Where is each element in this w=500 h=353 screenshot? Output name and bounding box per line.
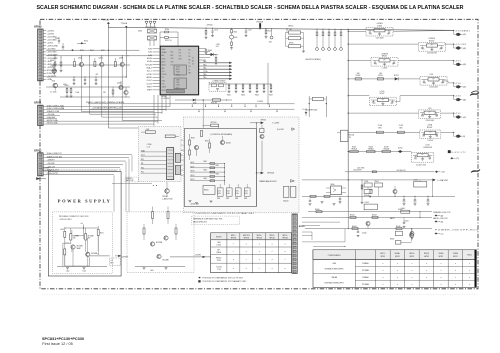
svg-text:C524 47U/16V: C524 47U/16V bbox=[427, 53, 437, 55]
svg-text:x: x bbox=[440, 284, 441, 286]
svg-text:x: x bbox=[426, 263, 427, 265]
svg-text:100N: 100N bbox=[227, 193, 230, 195]
svg-text:(CONTROL-KEYBOARD): (CONTROL-KEYBOARD) bbox=[211, 133, 233, 136]
svg-text:+ 1 V 8: + 1 V 8 bbox=[455, 83, 461, 85]
svg-text:D5040: D5040 bbox=[398, 209, 403, 211]
ground symbols control box bbox=[189, 201, 213, 205]
cluster RC standby bbox=[361, 180, 378, 210]
control box key row wires bbox=[190, 162, 225, 185]
capacitor C540 with gnd bbox=[339, 196, 342, 203]
terminal BACKLIGHT-ON bbox=[433, 217, 447, 223]
svg-text:C5042: C5042 bbox=[362, 233, 367, 235]
resistor pair RP511 bbox=[286, 38, 306, 52]
svg-text:TT500A: TT500A bbox=[121, 22, 128, 25]
svg-text:BP519: BP519 bbox=[381, 256, 386, 258]
svg-text:BV5140: BV5140 bbox=[349, 134, 355, 136]
footer issue date bbox=[42, 342, 73, 346]
IC1 right output arrows LVDS lines bbox=[199, 60, 233, 80]
transistor Q504 bbox=[117, 81, 123, 90]
svg-text:R5103: R5103 bbox=[356, 75, 361, 77]
svg-text:V502: V502 bbox=[52, 80, 56, 82]
svg-text:≠: ≠ bbox=[469, 269, 470, 272]
svg-text:+5V-GND: +5V-GND bbox=[47, 163, 55, 165]
svg-text:TNVL: TNVL bbox=[176, 82, 180, 84]
terminal BP500 lower bbox=[256, 172, 275, 175]
svg-text:BC558B: BC558B bbox=[156, 242, 162, 244]
svg-text:x: x bbox=[469, 277, 470, 279]
svg-text:C504: C504 bbox=[227, 190, 230, 192]
page border dash-dot frame bbox=[40, 19, 478, 289]
svg-text:SDA/SCL+(BACKLIGHT)+DIMMING-(S: SDA/SCL+(BACKLIGHT)+DIMMING-(SCALER) bbox=[86, 101, 125, 104]
svg-text:x: x bbox=[246, 251, 247, 253]
svg-text:x: x bbox=[455, 284, 456, 286]
svg-text:BP500: BP500 bbox=[261, 120, 266, 122]
node D+5V diamond bbox=[303, 109, 308, 116]
capacitor C510 bbox=[205, 49, 208, 55]
resistor R5149 row8 bbox=[382, 146, 390, 152]
svg-text:4R7: 4R7 bbox=[428, 112, 431, 114]
svg-text:+ 1 2 V / I N V: + 1 2 V / I N V bbox=[455, 44, 467, 46]
svg-text:100N: 100N bbox=[245, 193, 248, 195]
svg-text:TLR: TLR bbox=[179, 53, 182, 55]
svg-text:BP519: BP519 bbox=[410, 256, 415, 258]
svg-text:BP203: BP203 bbox=[299, 226, 305, 228]
note diamond position of components bbox=[198, 277, 244, 280]
svg-text:x: x bbox=[285, 244, 286, 246]
net label L7500 bbox=[147, 144, 152, 148]
transistor below micro box bbox=[153, 182, 169, 197]
svg-text:BP202: BP202 bbox=[34, 149, 42, 152]
svg-text:x: x bbox=[440, 277, 441, 279]
svg-text:BP519: BP519 bbox=[289, 43, 294, 45]
svg-text:R5048: R5048 bbox=[390, 239, 394, 241]
svg-text:BP518: BP518 bbox=[395, 256, 400, 258]
resistor network below IC1 bbox=[227, 84, 273, 97]
svg-text:SW4: SW4 bbox=[244, 198, 247, 200]
svg-text:R462: R462 bbox=[216, 165, 220, 167]
svg-text:x: x bbox=[272, 268, 273, 270]
net label LVDS bbox=[258, 63, 269, 105]
wire lower rail B bbox=[60, 96, 130, 98]
svg-text:P O W E R - O N / O F F - R C: P O W E R - O N / O F F - R C 5 bbox=[435, 229, 478, 231]
wire video input verticals bbox=[154, 95, 170, 127]
svg-text:+5VSW/T: +5VSW/T bbox=[43, 167, 50, 169]
resistor R521 bbox=[160, 37, 178, 43]
svg-text:0LRS1: 0LRS1 bbox=[162, 87, 167, 89]
svg-text:KEY1: KEY1 bbox=[191, 162, 195, 164]
svg-text:1SX: 1SX bbox=[171, 65, 174, 67]
transistor Q523 bbox=[86, 252, 97, 256]
svg-text:R512 4K7: R512 4K7 bbox=[211, 102, 217, 104]
svg-text:4R7: 4R7 bbox=[378, 29, 381, 31]
svg-text:BC558B: BC558B bbox=[77, 246, 83, 248]
svg-text:C-5/16V C5151: C-5/16V C5151 bbox=[416, 164, 427, 166]
svg-text:IR500: IR500 bbox=[204, 190, 209, 192]
svg-text:7B: 7B bbox=[349, 137, 351, 139]
left outside pin labels control box bbox=[181, 140, 184, 177]
svg-text:BP200: BP200 bbox=[34, 26, 42, 29]
svg-text:POW-ON-TXT: POW-ON-TXT bbox=[47, 173, 59, 175]
svg-text:C+5: C+5 bbox=[373, 103, 376, 105]
svg-text:R515: R515 bbox=[101, 50, 105, 52]
left column control box components bbox=[189, 134, 211, 160]
node BT500 top feed bbox=[103, 19, 110, 128]
svg-text:R5148: R5148 bbox=[369, 146, 373, 148]
svg-text:R547: R547 bbox=[269, 94, 273, 96]
svg-text:RS: RS bbox=[189, 59, 191, 61]
voltage regulator cluster +3V3 branch row3 bbox=[348, 53, 454, 69]
svg-text:C5143: C5143 bbox=[378, 125, 383, 127]
svg-text:+5VS00: +5VS00 bbox=[206, 25, 212, 27]
svg-text:100N: 100N bbox=[218, 193, 221, 195]
svg-text:SRN1: SRN1 bbox=[176, 74, 180, 76]
svg-text:L202: L202 bbox=[66, 270, 70, 272]
transistor Q510 in control box bbox=[201, 131, 231, 145]
break squiggle lower right border bbox=[471, 170, 480, 173]
terminal +12V-INV bbox=[453, 44, 467, 50]
svg-text:BYD17: BYD17 bbox=[394, 75, 399, 77]
svg-text:1VS: 1VS bbox=[162, 84, 165, 86]
svg-text:KEY4: KEY4 bbox=[191, 175, 195, 177]
op-amp U1 main scaler IC IV500 bbox=[160, 46, 198, 95]
svg-text:SCL: SCL bbox=[181, 155, 184, 157]
wire top power bus bbox=[108, 25, 453, 31]
voltage regulator cluster +12V branch row2 bbox=[348, 38, 454, 54]
svg-text:16V: 16V bbox=[436, 116, 438, 118]
svg-text:Q502: Q502 bbox=[99, 58, 103, 60]
svg-text:+12V/+5V ONLY: +12V/+5V ONLY bbox=[59, 219, 73, 221]
terminal +5VD bbox=[453, 95, 466, 101]
svg-text:D + 5 V 2 - C T C: D + 5 V 2 - C T C bbox=[452, 152, 467, 154]
module BP510 panel block bbox=[283, 186, 296, 202]
svg-text:V501: V501 bbox=[51, 66, 55, 68]
svg-text:1N: 1N bbox=[192, 64, 194, 66]
svg-text:R522: R522 bbox=[234, 31, 238, 33]
svg-text:C5109 100N: C5109 100N bbox=[425, 120, 433, 122]
wire +5V rail bbox=[46, 55, 152, 56]
svg-text:BC547: BC547 bbox=[380, 93, 385, 95]
transistor Q500B beside BP200 bbox=[50, 80, 57, 93]
svg-text:LD7805: LD7805 bbox=[377, 26, 382, 28]
transistor Q502 bbox=[94, 56, 158, 117]
resistor R575 bbox=[143, 224, 145, 240]
svg-text:BP519: BP519 bbox=[439, 256, 444, 258]
svg-text:MOUNT: MOUNT bbox=[216, 236, 222, 238]
diode D5150 row8 bbox=[398, 148, 403, 153]
svg-text:VX: VX bbox=[189, 50, 191, 52]
svg-text:NSL: NSL bbox=[171, 52, 174, 54]
svg-text:SW3: SW3 bbox=[235, 198, 238, 200]
wire mid rail bottom right bbox=[302, 196, 455, 197]
resistor R510 vertical bbox=[51, 57, 57, 72]
svg-text:BP500A: BP500A bbox=[268, 172, 275, 175]
svg-text:✓: ✓ bbox=[233, 243, 235, 246]
svg-text:C+5/16V: C+5/16V bbox=[427, 140, 433, 142]
svg-text:+BP519: +BP519 bbox=[424, 256, 429, 258]
resistor R571 bbox=[64, 243, 66, 266]
svg-text:x: x bbox=[246, 268, 247, 270]
svg-text:SW2: SW2 bbox=[226, 198, 229, 200]
svg-text:R5043: R5043 bbox=[372, 215, 377, 217]
svg-text:TB0+: TB0+ bbox=[203, 74, 207, 76]
svg-text:LVDS500/PD: LVDS500/PD bbox=[423, 147, 433, 149]
svg-text:R510: R510 bbox=[51, 60, 55, 62]
svg-text:RST: RST bbox=[141, 159, 144, 161]
transistor Q525 bbox=[150, 242, 162, 246]
transistor Q530 bbox=[393, 186, 397, 196]
note square position of components bbox=[198, 280, 247, 283]
svg-text:+5V2/LAMP: +5V2/LAMP bbox=[47, 54, 58, 57]
svg-text:R464: R464 bbox=[216, 174, 220, 176]
cluster lower left of rc5 row bbox=[390, 217, 414, 244]
resistor R511 vertical bbox=[60, 57, 63, 72]
svg-text:RS500: RS500 bbox=[467, 254, 472, 256]
resistor R561 in micro box bbox=[165, 135, 179, 138]
svg-text:x: x bbox=[426, 277, 427, 279]
cluster C5040 group bbox=[364, 181, 382, 197]
svg-text:BC548: BC548 bbox=[226, 143, 231, 145]
resistor R576 bbox=[175, 224, 177, 240]
svg-text:RGB/+/CVBS-L-VGA: RGB/+/CVBS-L-VGA bbox=[47, 104, 65, 107]
svg-text:D510: D510 bbox=[193, 102, 197, 104]
power supply outer box bbox=[48, 172, 121, 277]
POWER SUPPLY title bbox=[58, 199, 112, 204]
svg-text:P20: P20 bbox=[141, 167, 144, 169]
crystal X500 bbox=[138, 29, 156, 33]
resistor R5148 row8 bbox=[367, 146, 375, 152]
svg-text:TCLK+: TCLK+ bbox=[203, 71, 208, 73]
svg-text:C5041: C5041 bbox=[404, 221, 409, 223]
resistor KEY500 bbox=[202, 100, 218, 129]
svg-text:LCD26: LCD26 bbox=[217, 245, 222, 247]
resistor R5147 row7 bbox=[397, 125, 404, 133]
svg-text:X0X1: X0X1 bbox=[162, 80, 166, 82]
regulator box BV5140 row7 bbox=[337, 130, 354, 142]
svg-text:R521 1K: R521 1K bbox=[165, 40, 172, 42]
svg-text:R5040: R5040 bbox=[315, 209, 320, 211]
net label BL-NOT-DETAIL bbox=[306, 58, 321, 61]
net label PANEL-BACKLIGHT bbox=[259, 180, 294, 183]
svg-text:C+5: C+5 bbox=[414, 158, 417, 160]
svg-text:C+5: C+5 bbox=[370, 33, 373, 35]
small mounting table bbox=[211, 233, 292, 273]
svg-text:BACKL.-ON/+5V2: BACKL.-ON/+5V2 bbox=[433, 217, 447, 220]
big version table bbox=[313, 250, 476, 288]
node BT500A label bbox=[257, 20, 264, 28]
svg-text:(BL/NOT-DETAIL): (BL/NOT-DETAIL) bbox=[306, 58, 321, 61]
svg-text:C506: C506 bbox=[245, 190, 248, 192]
svg-text:AGND: AGND bbox=[147, 76, 153, 79]
svg-text:C505: C505 bbox=[236, 190, 239, 192]
capacitor C513 bbox=[84, 77, 87, 85]
svg-text:C5147: C5147 bbox=[399, 125, 404, 127]
svg-text:4R7: 4R7 bbox=[429, 132, 432, 134]
svg-text:R520: R520 bbox=[165, 29, 169, 31]
svg-text:+5VS1-GND: +5VS1-GND bbox=[47, 46, 59, 48]
svg-text:R543: R543 bbox=[241, 94, 245, 96]
svg-text:BP517+: BP517+ bbox=[380, 253, 385, 255]
wire +12V backlight inverter line bbox=[90, 107, 295, 113]
svg-text:+5V3-LAMP: +5V3-LAMP bbox=[47, 57, 59, 60]
svg-text:+12V-BACKLIGHT-INVERTER-(+24V): +12V-BACKLIGHT-INVERTER-(+24V) bbox=[92, 107, 123, 110]
wire standby rail bbox=[302, 179, 433, 180]
svg-text:R545: R545 bbox=[255, 94, 259, 96]
fuse F500 bbox=[205, 25, 213, 39]
capacitor C519 off bus bbox=[245, 28, 252, 37]
node TT500A feed bbox=[121, 22, 128, 77]
svg-text:L5150: L5150 bbox=[425, 145, 429, 147]
svg-text:x: x bbox=[397, 284, 398, 286]
dotted box IP500 micro section bbox=[138, 126, 181, 181]
svg-text:First issue 12 / 05: First issue 12 / 05 bbox=[42, 342, 73, 346]
resistor row4 +1V8 branch bbox=[348, 73, 420, 81]
transistor Q522 bbox=[71, 245, 82, 250]
svg-text:BP519+: BP519+ bbox=[283, 235, 288, 237]
svg-text:L+5VD: L+5VD bbox=[380, 91, 386, 93]
svg-text:0S: 0S bbox=[189, 56, 191, 58]
svg-text:NL0: NL0 bbox=[179, 50, 182, 52]
power supply left vertical bbox=[63, 243, 70, 266]
svg-text:R5046: R5046 bbox=[396, 226, 401, 228]
wire +5VSW output bbox=[170, 254, 211, 258]
footer document code bbox=[42, 337, 84, 341]
wire BP203 feeds bbox=[302, 217, 345, 242]
svg-text:D500: D500 bbox=[208, 50, 212, 52]
svg-text:+5VS1: +5VS1 bbox=[47, 43, 54, 45]
svg-text:HSYNC-VGA: HSYNC-VGA bbox=[47, 119, 58, 122]
svg-text:+3V3: +3V3 bbox=[145, 129, 149, 131]
svg-text:C+5: C+5 bbox=[424, 83, 427, 85]
svg-text:BC558B: BC558B bbox=[91, 253, 97, 255]
svg-text:+5V2: +5V2 bbox=[441, 172, 445, 174]
connector BP203 bbox=[292, 214, 305, 273]
svg-text:D+5VA STBY: D+5VA STBY bbox=[438, 179, 450, 182]
resistor ladder from top bus bbox=[316, 29, 343, 51]
wire row8 D+5V2 bbox=[348, 151, 412, 152]
svg-text:POWER SUPPLY: POWER SUPPLY bbox=[58, 199, 112, 204]
svg-text:x: x bbox=[285, 268, 286, 270]
crystal X501 bbox=[148, 36, 157, 40]
svg-text:R512: R512 bbox=[84, 41, 88, 43]
svg-text:BC548B: BC548B bbox=[163, 260, 169, 262]
vertical chain Q506 off bus bbox=[230, 28, 238, 49]
resistor R560 in micro box bbox=[141, 129, 155, 133]
svg-text:≠: ≠ bbox=[411, 283, 412, 286]
resistor pair RP510 bbox=[286, 25, 304, 40]
capacitor C506 bbox=[55, 37, 60, 44]
svg-text:100N: 100N bbox=[236, 193, 239, 195]
svg-text:Q503: Q503 bbox=[119, 58, 123, 60]
wire green channel drop bbox=[89, 55, 156, 114]
IC1 left pin wires with labels bbox=[145, 49, 160, 92]
svg-text:J500: J500 bbox=[269, 41, 272, 43]
svg-text:+5V: +5V bbox=[110, 260, 113, 262]
svg-text:+ 5 V 3 / P A N E L: + 5 V 3 / P A N E L bbox=[455, 29, 470, 32]
terminal D+5VA STBY bbox=[433, 179, 450, 183]
svg-text:x: x bbox=[455, 263, 456, 265]
dashed cluster L-STAGE LVDS bbox=[209, 80, 226, 92]
terminal BP500 upper bbox=[250, 120, 280, 125]
net label CONTROL-KEYBOARD bbox=[211, 133, 233, 136]
BP202 pin wires and net labels bbox=[43, 153, 132, 175]
power supply bottom rail bbox=[57, 249, 107, 272]
svg-text:SDA/SCL/TXT-SW: SDA/SCL/TXT-SW bbox=[47, 155, 62, 158]
svg-text:HS-IN: HS-IN bbox=[147, 58, 153, 60]
svg-text:BC558B: BC558B bbox=[73, 235, 79, 237]
svg-text:100N: 100N bbox=[76, 92, 80, 94]
svg-text:16V: 16V bbox=[390, 103, 392, 105]
svg-text:SCL1: SCL1 bbox=[141, 155, 145, 157]
svg-text:C518: C518 bbox=[214, 30, 218, 32]
svg-text:POSITION OF COMPONENTS: TOP P: POSITION OF COMPONENTS: TOP PLASMA TV ON… bbox=[203, 280, 248, 283]
resistor R572 bbox=[97, 226, 104, 251]
transistor Q511 panel area bbox=[260, 125, 265, 171]
transistor Q503 bbox=[114, 56, 162, 121]
svg-text:16V: 16V bbox=[392, 64, 394, 66]
terminal +5V2 top right bbox=[435, 171, 445, 174]
svg-text:+12VS1: +12VS1 bbox=[47, 33, 55, 35]
svg-text:R5042: R5042 bbox=[350, 215, 355, 217]
wire standby led row bbox=[308, 208, 432, 213]
svg-text:CLK-N: CLK-N bbox=[146, 83, 152, 85]
control keyboard solid box bbox=[184, 129, 256, 207]
svg-text:x: x bbox=[285, 251, 286, 253]
svg-text:+3V3D: +3V3D bbox=[146, 74, 152, 76]
svg-text:R590: R590 bbox=[191, 138, 195, 140]
net label +1.2V bbox=[216, 44, 221, 48]
terminal D+5V2-CTC black square bbox=[448, 150, 467, 160]
svg-text:10K: 10K bbox=[103, 92, 106, 94]
svg-text:C+3: C+3 bbox=[147, 146, 150, 148]
svg-text:R523: R523 bbox=[268, 31, 272, 33]
note box SDA-SCL bbox=[125, 177, 139, 182]
voltage regulator cluster +2V5 row6 bbox=[348, 108, 454, 122]
svg-text:SPC831+PC130+PC330: SPC831+PC130+PC330 bbox=[42, 337, 84, 341]
resistor R531 bbox=[215, 55, 218, 65]
svg-text:PANEL/BACKLIGHT: PANEL/BACKLIGHT bbox=[259, 180, 277, 183]
svg-text:SOG-IN: SOG-IN bbox=[145, 64, 152, 66]
svg-text:REFERENCE COMPONENT ONLY FOR: REFERENCE COMPONENT ONLY FOR bbox=[193, 218, 223, 220]
opto coupler IR block bbox=[326, 184, 346, 195]
wire +8V6 rail bbox=[46, 76, 127, 77]
svg-text:R461: R461 bbox=[204, 161, 208, 163]
svg-text:BP519+: BP519+ bbox=[270, 235, 275, 237]
svg-text:XX: XX bbox=[189, 66, 191, 68]
terminal +3V3 bbox=[453, 60, 466, 66]
svg-text:VS-IN: VS-IN bbox=[147, 61, 152, 63]
svg-text:R513: R513 bbox=[80, 50, 84, 52]
faint scan artifact line below border bbox=[42, 293, 478, 295]
svg-text:BP518+: BP518+ bbox=[409, 253, 414, 255]
svg-text:16V: 16V bbox=[387, 33, 389, 35]
second box bottom rail bbox=[135, 267, 185, 272]
note text provided correctly bbox=[59, 216, 89, 221]
svg-text:10K: 10K bbox=[73, 238, 76, 240]
wire feed down to IC1 top bbox=[160, 32, 178, 46]
svg-text:T-SCON: T-SCON bbox=[216, 267, 221, 269]
resistor R523 off bus bbox=[265, 28, 274, 43]
svg-text:x: x bbox=[382, 277, 383, 279]
svg-text:POSITION OF COMPONENTS: TOP: POSITION OF COMPONENTS: TOP BY LCD PANEL… bbox=[196, 212, 255, 215]
svg-text:BV5100: BV5100 bbox=[429, 41, 435, 43]
svg-text:x: x bbox=[259, 244, 260, 246]
inductor L5040 bbox=[414, 180, 427, 188]
svg-text:RGB/+/CVBS-TXT: RGB/+/CVBS-TXT bbox=[47, 153, 63, 155]
svg-text:x: x bbox=[469, 263, 470, 265]
svg-text:16V: 16V bbox=[436, 136, 438, 138]
svg-text:C503: C503 bbox=[218, 190, 221, 192]
svg-text:REG: REG bbox=[110, 263, 113, 265]
